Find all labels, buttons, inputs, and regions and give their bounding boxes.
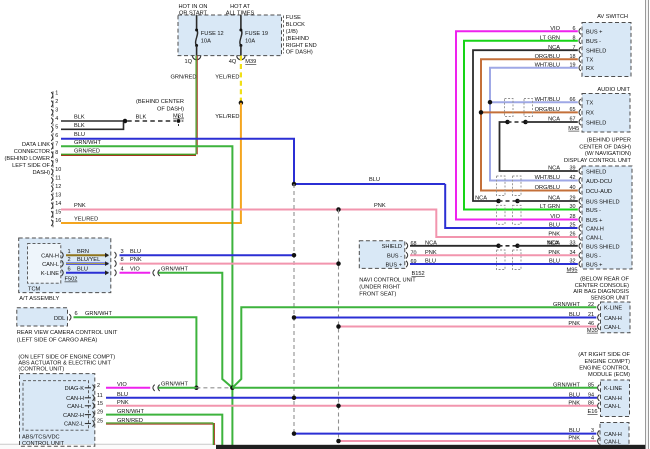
svg-text:CAN-L: CAN-L bbox=[604, 404, 621, 410]
svg-text:26: 26 bbox=[569, 232, 575, 238]
fuse F12 10A bbox=[196, 15, 198, 30]
svg-text:BUS -: BUS - bbox=[387, 254, 402, 260]
svg-text:CAN-H: CAN-H bbox=[586, 226, 604, 232]
svg-text:(J/B): (J/B) bbox=[286, 29, 298, 35]
svg-text:DISPLAY CONTROL UNIT: DISPLAY CONTROL UNIT bbox=[564, 158, 632, 164]
junction dot CAN-H row bbox=[292, 396, 297, 401]
svg-text:CAN-H: CAN-H bbox=[604, 396, 622, 402]
svg-text:4: 4 bbox=[121, 266, 124, 272]
wire GRN/WHT DLC pin7 K-line bus bbox=[61, 146, 232, 445]
svg-text:CAN2-H: CAN2-H bbox=[63, 413, 84, 419]
svg-text:(W/ NAVIGATION): (W/ NAVIGATION) bbox=[585, 151, 631, 157]
wire GRN/WHT K-line to ECM bbox=[232, 387, 597, 389]
svg-text:(UNDER RIGHT: (UNDER RIGHT bbox=[359, 285, 401, 291]
svg-text:BLK: BLK bbox=[136, 114, 147, 120]
air bag box bbox=[601, 302, 631, 333]
junction dot K-line main bbox=[230, 386, 235, 391]
svg-text:15: 15 bbox=[97, 401, 103, 407]
svg-text:8: 8 bbox=[121, 257, 124, 263]
wire GRN/RED ABS CAN2-L bbox=[106, 422, 213, 424]
svg-text:BUS +: BUS + bbox=[386, 262, 403, 268]
svg-text:GRN/WHT: GRN/WHT bbox=[161, 381, 188, 387]
svg-text:9: 9 bbox=[55, 158, 58, 164]
svg-text:11: 11 bbox=[55, 175, 61, 181]
svg-text:HOT AT: HOT AT bbox=[230, 4, 250, 10]
svg-text:M35: M35 bbox=[587, 328, 598, 334]
svg-text:ORG/BLU: ORG/BLU bbox=[535, 185, 560, 191]
svg-text:BLOCK: BLOCK bbox=[286, 22, 305, 28]
wire YEL/RED dashed from 4Q bbox=[240, 56, 242, 103]
wire NCA AV SHIELD vertical bbox=[473, 50, 578, 201]
inline connector K-line ABS bbox=[153, 385, 155, 391]
svg-text:BLU: BLU bbox=[569, 392, 580, 398]
svg-text:PNK: PNK bbox=[374, 203, 386, 209]
wire LT GRN AV BUS- to display bbox=[464, 41, 578, 210]
svg-text:CENTER OF DASH): CENTER OF DASH) bbox=[579, 144, 631, 150]
svg-text:10A: 10A bbox=[245, 39, 255, 45]
svg-text:BLU: BLU bbox=[369, 177, 380, 183]
A/T connector arrows bbox=[105, 253, 109, 258]
ABS actuator box fill bbox=[20, 374, 95, 445]
svg-text:DATA LINK: DATA LINK bbox=[22, 142, 50, 148]
fuse F19 10A bbox=[240, 15, 242, 30]
shield marks navi BUS pair bbox=[497, 250, 506, 270]
svg-text:ENGINE COMPT): ENGINE COMPT) bbox=[585, 359, 631, 365]
svg-text:3: 3 bbox=[55, 107, 58, 113]
wire BLU air bag CAN-H bbox=[294, 317, 596, 319]
svg-text:RIGHT END: RIGHT END bbox=[286, 43, 317, 49]
wire WHT/BLU to audio TX bbox=[490, 101, 578, 103]
junction dot BLU bus top bbox=[292, 182, 297, 187]
dashed link DDL junction to main K-line dot bbox=[196, 387, 232, 389]
ground symbol M61 bbox=[177, 119, 181, 123]
svg-text:LT GRN: LT GRN bbox=[540, 204, 560, 210]
svg-text:TCM: TCM bbox=[28, 287, 41, 293]
svg-text:GRN/RED: GRN/RED bbox=[74, 148, 100, 154]
svg-text:1Q: 1Q bbox=[184, 59, 192, 65]
svg-text:39: 39 bbox=[569, 166, 575, 172]
wire BLK dashed to ground bbox=[127, 120, 176, 122]
svg-text:K-LINE: K-LINE bbox=[604, 386, 622, 392]
svg-text:(CONTROL UNIT): (CONTROL UNIT) bbox=[18, 367, 64, 373]
svg-text:BUS +: BUS + bbox=[586, 218, 603, 224]
ABS actuator box border bbox=[20, 374, 95, 447]
svg-text:PNK: PNK bbox=[130, 257, 142, 263]
ABS control unit inner box bbox=[23, 381, 89, 431]
svg-text:BUS SHIELD: BUS SHIELD bbox=[586, 199, 620, 205]
svg-text:LEFT SIDE OF: LEFT SIDE OF bbox=[12, 163, 50, 169]
svg-text:F502: F502 bbox=[65, 277, 78, 283]
audio unit box bbox=[582, 94, 630, 133]
svg-text:MODULE (ECM): MODULE (ECM) bbox=[588, 372, 630, 378]
svg-text:SHIELD: SHIELD bbox=[382, 244, 402, 250]
wire BLK DLC pin5 bbox=[61, 122, 124, 129]
junction dot air bag CAN-L bbox=[336, 324, 341, 329]
svg-text:NCA: NCA bbox=[475, 196, 487, 202]
wire PNK A/T pin8 to CAN-L bus bbox=[120, 263, 339, 265]
wire PNK navi BUS- to display 34 bbox=[410, 254, 578, 256]
junction dot air bag CAN-H bbox=[292, 315, 297, 320]
svg-text:(AT RIGHT SIDE OF: (AT RIGHT SIDE OF bbox=[578, 352, 630, 358]
junction dot ORG/BLU bbox=[479, 110, 484, 115]
svg-text:BLU/YEL: BLU/YEL bbox=[77, 257, 100, 263]
svg-text:OR START: OR START bbox=[179, 11, 208, 17]
wire BLU horizontal to display CAN-H bbox=[294, 183, 445, 185]
wire BLU TCM pin6 bbox=[66, 272, 108, 274]
wire GRN/WHT air bag K-line bbox=[232, 307, 596, 388]
bottom black bar bbox=[216, 445, 646, 449]
svg-text:94: 94 bbox=[588, 392, 594, 398]
svg-text:12: 12 bbox=[55, 184, 61, 190]
svg-text:4Q: 4Q bbox=[229, 59, 237, 65]
wire BLK DLC pin4 bbox=[61, 120, 125, 122]
inline connector A/T K-line bbox=[153, 270, 155, 276]
svg-text:25: 25 bbox=[569, 223, 575, 229]
svg-text:BLU: BLU bbox=[74, 132, 85, 138]
svg-text:PNK: PNK bbox=[568, 400, 580, 406]
white strip bottom left bbox=[0, 444, 216, 449]
wire VIO A/T pin4 bbox=[120, 272, 151, 274]
svg-text:BUS -: BUS - bbox=[586, 208, 601, 214]
shield marks display BUS pair bbox=[497, 205, 506, 224]
svg-text:(BEHIND LOWER: (BEHIND LOWER bbox=[5, 156, 50, 162]
svg-text:86: 86 bbox=[588, 400, 594, 406]
svg-text:SHIELD: SHIELD bbox=[586, 49, 606, 55]
svg-text:CAN-H: CAN-H bbox=[41, 253, 59, 259]
svg-text:GRN/WHT: GRN/WHT bbox=[85, 311, 112, 317]
connector 4Q / M39 bbox=[237, 56, 245, 60]
svg-text:M95: M95 bbox=[567, 267, 578, 273]
svg-text:30: 30 bbox=[569, 204, 575, 210]
wire ORG/BLU to audio RX bbox=[481, 111, 578, 113]
svg-text:CAN2-L: CAN2-L bbox=[64, 422, 84, 428]
svg-text:1: 1 bbox=[55, 90, 58, 96]
svg-text:NAVI CONTROL UNIT: NAVI CONTROL UNIT bbox=[359, 278, 416, 284]
DDL pin bracket bbox=[69, 314, 71, 320]
TCM pin brackets bbox=[62, 252, 64, 258]
svg-text:29: 29 bbox=[97, 410, 103, 416]
A/T assembly box bbox=[19, 238, 111, 293]
wire YEL/RED solid to DLC pin16 bbox=[61, 103, 241, 223]
svg-text:15: 15 bbox=[55, 209, 61, 215]
svg-text:FUSE 12: FUSE 12 bbox=[201, 31, 224, 37]
svg-text:AUDIO UNIT: AUDIO UNIT bbox=[597, 87, 630, 93]
svg-text:NCA: NCA bbox=[548, 166, 560, 172]
svg-text:FUSE: FUSE bbox=[286, 15, 301, 21]
svg-text:CAN-L: CAN-L bbox=[604, 439, 621, 445]
svg-text:(BEHIND UPPER: (BEHIND UPPER bbox=[587, 138, 631, 144]
wire VIO ABS DIAG-K bbox=[106, 387, 150, 389]
ECM box bbox=[601, 380, 630, 417]
svg-text:2: 2 bbox=[68, 257, 71, 263]
wire PNK air bag CAN-L bbox=[339, 326, 597, 328]
wire GRN/WHT A/T K-line to junction bbox=[159, 273, 233, 388]
svg-text:6: 6 bbox=[55, 133, 58, 139]
bottom unit box bbox=[600, 423, 629, 449]
svg-text:CENTER CONSOLE): CENTER CONSOLE) bbox=[575, 283, 629, 289]
svg-text:CAN-L: CAN-L bbox=[67, 404, 84, 410]
svg-text:1: 1 bbox=[68, 249, 71, 255]
svg-text:A/T ASSEMBLY: A/T ASSEMBLY bbox=[19, 296, 59, 302]
svg-text:BUS -: BUS - bbox=[586, 254, 601, 260]
svg-text:BLK: BLK bbox=[74, 123, 85, 129]
wire PNK ABS CAN-L to ECM bbox=[106, 405, 597, 407]
svg-text:CAN-H: CAN-H bbox=[604, 432, 622, 438]
svg-text:BLU: BLU bbox=[549, 223, 560, 229]
svg-text:SHIELD: SHIELD bbox=[586, 169, 606, 175]
svg-text:E16: E16 bbox=[588, 409, 598, 415]
svg-text:2: 2 bbox=[97, 383, 100, 389]
junction dot YEL/RED bbox=[239, 101, 244, 106]
connector 1Q bbox=[192, 56, 200, 60]
svg-text:8: 8 bbox=[55, 150, 58, 156]
svg-text:RX: RX bbox=[586, 66, 594, 72]
svg-text:AIR BAG DIAGNOSIS: AIR BAG DIAGNOSIS bbox=[573, 289, 629, 295]
AV switch pins bbox=[579, 28, 581, 34]
svg-text:RX: RX bbox=[586, 111, 594, 117]
svg-text:(BEHIND CENTER: (BEHIND CENTER bbox=[136, 99, 184, 105]
svg-text:ABS/TCS/VDC: ABS/TCS/VDC bbox=[22, 434, 60, 440]
wire BLU ABS CAN-H to ECM bbox=[106, 397, 597, 399]
svg-text:YEL/RED: YEL/RED bbox=[215, 74, 239, 80]
wire VIO AV BUS+ to display bbox=[456, 31, 578, 219]
AV switch box bbox=[582, 23, 631, 77]
wire GRN/WHT ABS CAN2-H bbox=[106, 415, 222, 445]
svg-text:10: 10 bbox=[55, 167, 61, 173]
display control unit box bbox=[582, 166, 632, 269]
svg-text:13: 13 bbox=[55, 192, 61, 198]
junction dot A/T BLU bbox=[292, 253, 297, 258]
svg-text:M39: M39 bbox=[245, 59, 256, 65]
svg-text:2: 2 bbox=[55, 99, 58, 105]
svg-text:CAN-L: CAN-L bbox=[604, 325, 621, 331]
A/T connector brackets bbox=[115, 252, 117, 258]
wire BLU DLC pin6 to CAN-H bus bbox=[61, 139, 294, 184]
rear view camera box bbox=[17, 308, 68, 326]
svg-text:BUS +: BUS + bbox=[586, 262, 603, 268]
TCM box bbox=[28, 244, 61, 284]
svg-text:SENSOR UNIT: SENSOR UNIT bbox=[590, 296, 629, 302]
svg-text:VIO: VIO bbox=[550, 214, 560, 220]
air bag pins bbox=[598, 304, 600, 310]
svg-text:DIAG-K: DIAG-K bbox=[65, 386, 85, 392]
svg-text:FUSE 19: FUSE 19 bbox=[245, 31, 268, 37]
svg-text:K-LINE: K-LINE bbox=[41, 271, 59, 277]
svg-text:BLK: BLK bbox=[74, 114, 85, 120]
svg-text:GRN/WHT: GRN/WHT bbox=[553, 382, 580, 388]
junction dot CAN-L row bbox=[336, 404, 341, 409]
junction dot A/T PNK bbox=[336, 261, 341, 266]
svg-text:B152: B152 bbox=[412, 271, 425, 277]
svg-text:(LEFT SIDE OF CARGO AREA): (LEFT SIDE OF CARGO AREA) bbox=[17, 338, 98, 344]
svg-text:OF DASH): OF DASH) bbox=[157, 106, 184, 112]
svg-text:CAN-H: CAN-H bbox=[604, 316, 622, 322]
svg-text:TX: TX bbox=[586, 101, 593, 107]
display unit pins bbox=[579, 168, 581, 174]
svg-text:ABS ACTUATOR & ELECTRIC UNIT: ABS ACTUATOR & ELECTRIC UNIT bbox=[18, 361, 111, 367]
svg-text:85: 85 bbox=[588, 382, 594, 388]
junction dot bottom CAN-L bbox=[336, 439, 341, 444]
svg-text:CONTROL UNIT: CONTROL UNIT bbox=[22, 441, 65, 447]
junction dot WHT/BLU bbox=[488, 100, 493, 105]
svg-text:K-LINE: K-LINE bbox=[604, 306, 622, 312]
wire BLU A/T pin3 to CAN-H bus bbox=[120, 254, 295, 256]
svg-text:PNK: PNK bbox=[548, 232, 560, 238]
svg-text:M45: M45 bbox=[568, 126, 579, 132]
wire GRN/RED fuse12 to DLC pin8 bbox=[195, 56, 197, 155]
svg-text:40: 40 bbox=[569, 185, 575, 191]
wire BLU bottom CAN-H bbox=[294, 433, 596, 435]
svg-text:(BEHIND: (BEHIND bbox=[286, 36, 309, 42]
svg-text:6: 6 bbox=[68, 266, 71, 272]
svg-text:DASH): DASH) bbox=[32, 170, 50, 176]
svg-text:NCA: NCA bbox=[547, 240, 559, 246]
wire NCA navi SHIELD to display 33 bbox=[410, 245, 497, 247]
junction dot DDL bbox=[194, 386, 199, 391]
svg-text:OF DASH): OF DASH) bbox=[286, 50, 313, 56]
wire BLU navi BUS+ to display 32 bbox=[410, 263, 578, 265]
wire NCA audio SHIELD bbox=[500, 122, 578, 171]
svg-text:4: 4 bbox=[55, 116, 58, 122]
wire WHT/BLU AV RX vertical bbox=[490, 68, 578, 181]
svg-text:VIO: VIO bbox=[130, 266, 140, 272]
svg-text:CAN-L: CAN-L bbox=[586, 235, 603, 241]
svg-text:42: 42 bbox=[569, 175, 575, 181]
svg-text:CONNECTOR: CONNECTOR bbox=[14, 149, 50, 155]
svg-text:REAR VIEW CAMERA CONTROL UNIT: REAR VIEW CAMERA CONTROL UNIT bbox=[17, 330, 118, 336]
wire GRN/WHT ABS K-line bbox=[159, 387, 197, 389]
svg-text:GRN/WHT: GRN/WHT bbox=[74, 140, 101, 146]
audio unit pins bbox=[579, 99, 581, 105]
shield marks audio pair bbox=[505, 99, 514, 117]
bus dashed CAN-H vertical bbox=[293, 184, 295, 434]
svg-text:11: 11 bbox=[97, 393, 103, 399]
svg-text:7: 7 bbox=[55, 141, 58, 147]
svg-text:AUD-DCU: AUD-DCU bbox=[586, 179, 612, 185]
svg-text:(BELOW REAR OF: (BELOW REAR OF bbox=[580, 277, 629, 283]
svg-text:CAN-H: CAN-H bbox=[66, 396, 84, 402]
svg-text:16: 16 bbox=[55, 218, 61, 224]
wire ORG/BLU AV TX vertical bbox=[481, 59, 578, 190]
wire PNK bottom CAN-L bbox=[339, 440, 597, 442]
junction dot BLK bbox=[123, 119, 128, 124]
svg-text:DCU-AUD: DCU-AUD bbox=[586, 189, 612, 195]
svg-text:(ON LEFT SIDE OF ENGINE COMPT): (ON LEFT SIDE OF ENGINE COMPT) bbox=[18, 354, 115, 360]
junction dot bottom CAN-H bbox=[292, 431, 297, 436]
bus dashed CAN-L vertical bbox=[338, 210, 340, 442]
shield marks display AUD pair bbox=[497, 176, 506, 196]
svg-text:YEL/RED: YEL/RED bbox=[215, 114, 239, 120]
fuse block side label bbox=[283, 16, 285, 54]
svg-text:BLU: BLU bbox=[77, 266, 88, 272]
fuse block J/B box bbox=[178, 15, 282, 56]
svg-text:BUS +: BUS + bbox=[586, 30, 603, 36]
svg-text:25: 25 bbox=[97, 419, 103, 425]
svg-text:CAN-L: CAN-L bbox=[42, 262, 59, 268]
svg-text:28: 28 bbox=[569, 214, 575, 220]
svg-text:10A: 10A bbox=[201, 39, 211, 45]
svg-text:PNK: PNK bbox=[74, 203, 86, 209]
wire BLU/YEL TCM pin2 bbox=[66, 263, 108, 265]
svg-text:DDL: DDL bbox=[54, 316, 65, 322]
svg-text:WHT/BLU: WHT/BLU bbox=[535, 175, 560, 181]
DLC pin brackets bbox=[51, 92, 53, 98]
svg-text:SHIELD: SHIELD bbox=[586, 120, 606, 126]
wire GRN/WHT DDL pin6 to K-line junction bbox=[74, 317, 197, 388]
navi control unit box bbox=[359, 241, 405, 269]
svg-text:YEL/RED: YEL/RED bbox=[74, 217, 98, 223]
wire PNK DLC pin14 to display CAN-L bbox=[61, 210, 578, 238]
svg-text:6: 6 bbox=[75, 311, 78, 317]
svg-text:BUS SHIELD: BUS SHIELD bbox=[586, 244, 620, 250]
svg-text:TX: TX bbox=[586, 58, 593, 64]
svg-text:HOT IN ON: HOT IN ON bbox=[178, 4, 207, 10]
svg-text:ENGINE CONTROL: ENGINE CONTROL bbox=[579, 365, 630, 371]
svg-text:BLU: BLU bbox=[130, 249, 141, 255]
svg-text:5: 5 bbox=[55, 124, 58, 130]
right window border bbox=[645, 0, 647, 449]
wire BRN TCM pin1 bbox=[66, 254, 108, 256]
junction dot PNK bus top bbox=[336, 207, 341, 212]
svg-text:14: 14 bbox=[55, 201, 61, 207]
svg-text:AV SWITCH: AV SWITCH bbox=[597, 14, 628, 20]
bottom unit pins bbox=[598, 430, 600, 436]
svg-text:BUS -: BUS - bbox=[586, 39, 601, 45]
svg-text:FRONT SEAT): FRONT SEAT) bbox=[359, 291, 396, 297]
svg-text:GRN/RED: GRN/RED bbox=[171, 74, 197, 80]
DLC connector line bbox=[52, 91, 54, 227]
svg-text:GRN/WHT: GRN/WHT bbox=[161, 266, 188, 272]
ECM pins bbox=[598, 385, 600, 391]
svg-text:3: 3 bbox=[121, 249, 124, 255]
svg-text:BRN: BRN bbox=[77, 249, 89, 255]
